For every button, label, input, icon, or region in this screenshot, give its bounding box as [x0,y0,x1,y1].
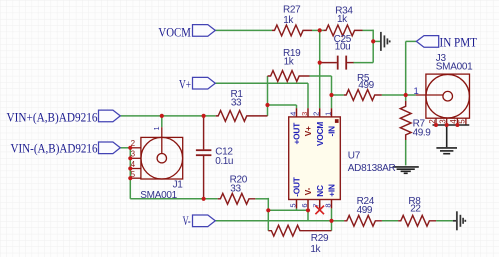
wire bottom rail to R20 [130,198,217,200]
wire V+ port to pin3 column [215,82,308,84]
svg-text:V-: V- [303,187,313,195]
svg-text:1k: 1k [337,14,348,25]
svg-text:-IN: -IN [327,126,337,137]
svg-text:0.1u: 0.1u [215,156,233,167]
resistor R27 1k [272,25,312,36]
svg-text:3: 3 [300,112,309,116]
J1 pin 1 [161,127,163,153]
wire -OUT node to pin 6 junction [268,209,308,211]
svg-text:1: 1 [323,112,332,116]
port VIN-(A,B)AD9216 [99,142,121,154]
svg-text:1k: 1k [310,244,321,255]
no-connect X on U7 pin 7 [315,206,324,215]
ground at R7 [393,167,419,173]
svg-text:33: 33 [230,183,241,194]
svg-text:22: 22 [410,204,421,215]
resistor R5 499 [344,90,382,101]
svg-text:5: 5 [131,170,136,179]
J1 pin 3 [130,157,141,159]
junction C12 top [202,114,206,118]
svg-text:4: 4 [131,160,136,169]
wire VOCM port to R27 [215,29,272,31]
port V- [193,215,216,227]
svg-text:VOCM: VOCM [315,122,325,146]
junction C12 bottom [202,197,206,201]
wire R29 right lead up to +IN junction [331,221,333,231]
port IN PMT [416,36,438,48]
wire C25 right lead corner [353,62,373,64]
port VOCM [193,25,216,37]
svg-text:1k: 1k [283,15,294,26]
wire VIN+ port to R1 [121,115,216,117]
U7 pin 6 stub [307,200,309,209]
svg-text:U7: U7 [348,150,361,161]
resistor R19 1k [268,71,310,82]
svg-text:2: 2 [428,119,437,124]
wire R1 corner up to R19 left [267,76,269,116]
junction J3 pin2 [434,123,438,127]
svg-text:VIN-(A,B)AD9216: VIN-(A,B)AD9216 [11,141,98,155]
wire corner down to R29 [267,198,269,231]
resistor R7 49.9 vertical [400,101,411,140]
resistor R34 1k [323,25,362,36]
op-amp U7 AD8138AR body [289,117,341,200]
junction pin6/V- [306,208,310,212]
svg-text:499: 499 [357,205,373,216]
junction VOCM/R34 [318,28,322,32]
resistor R1 33 [216,111,268,122]
svg-text:4: 4 [288,112,297,116]
junction R5/pin1 [329,93,333,97]
wire VOCM junction down to C25 junction [319,30,321,62]
svg-text:1k: 1k [284,57,295,68]
svg-text:+OUT: +OUT [292,123,302,145]
svg-text:2: 2 [131,139,136,148]
svg-text:2: 2 [312,112,321,116]
J3 pin 4 [456,118,458,125]
J1 pin 4 [130,168,141,170]
svg-text:+IN: +IN [327,184,337,197]
svg-text:5: 5 [288,203,297,207]
U7 pin 2 stub [319,108,321,117]
wire ground junction down to C25 right [372,41,374,62]
svg-text:1: 1 [414,86,419,97]
wire junction down to R7 [405,95,407,101]
U7 pin 5 stub [296,200,298,209]
svg-text:VIN+(A,B)AD9216: VIN+(A,B)AD9216 [7,110,98,124]
junction VIN-/J1 pin2 [128,146,132,150]
wire VIN- port to J1 pin 2 [121,147,131,149]
J3 pin 1 [416,94,443,96]
svg-text:10u: 10u [335,41,351,52]
junction R34/C25/gnd [371,39,375,43]
J1 pin 2 [130,147,141,149]
wire R8 to ground [436,220,453,222]
wire R27 to VOCM junction [312,29,323,31]
wire V- port rail [215,220,332,222]
port V+ [193,77,216,89]
junction J1 pin5 [128,176,132,180]
wire R34 right lead to corner [363,29,374,31]
svg-text:SMA001: SMA001 [140,190,177,201]
svg-text:49.9: 49.9 [413,127,432,138]
svg-text:NC: NC [315,185,325,197]
connector J1 SMA001 [130,127,182,179]
wire R19 right lead to pin1 column [310,75,332,77]
svg-text:499: 499 [358,80,374,91]
svg-text:V+: V+ [179,78,191,92]
svg-text:3: 3 [131,150,136,159]
wire V+ down to U7 pin 3 [307,83,309,108]
wire to IN PMT port [406,40,417,42]
svg-text:8: 8 [323,203,332,207]
J3 pin 5 [465,118,467,125]
U7 pin 4 stub [296,108,298,117]
resistor R29 1k [268,225,331,236]
U7 pin 7 stub [319,200,321,209]
junction VIN+/J1 pin1 [160,114,164,118]
junction J1 pin4 [128,166,132,170]
wire J1 pin 1 drop [161,116,163,127]
wire U7 pin 5 to -OUT rail [296,208,298,210]
junction J1 pin3 [128,156,132,160]
wire corner down to ground junction [372,30,374,42]
svg-text:R29: R29 [311,233,329,244]
U7 pin 3 stub [307,108,309,117]
svg-text:5: 5 [458,119,467,124]
U7 pin 1 stub [331,108,333,117]
U7 pin 8 stub [331,200,333,209]
svg-text:1: 1 [152,126,161,130]
svg-text:IN PMT: IN PMT [440,35,478,49]
wire ground junction to ground symbol [373,40,380,42]
ground at R8 [453,211,466,230]
capacitor C12 0.1u [196,116,212,199]
junction -OUT rail [266,208,270,212]
wire R5 right to J3 pin 1 [382,94,416,96]
svg-text:6: 6 [300,203,309,207]
junction +IN/R24/R29 [329,219,333,223]
wire down to U7 pin 4 [296,105,298,108]
port VIN+(A,B)AD9216 [99,110,121,122]
wire down to U7 pin 1 [331,76,333,108]
junction R1/R19/pin4 [265,103,269,107]
J3 pin 3 [446,118,448,125]
J3 pin 2 [435,118,437,125]
capacitor C25 10u [320,56,354,70]
junction J3 pin4 [455,123,459,127]
wire -IN node to R5 [332,94,344,96]
wire U7 pin 6 to junction [307,208,309,210]
wire +IN junction to R24 [332,220,345,222]
wire J1 left pin column [129,148,131,199]
U7 pin 1 marker square [335,119,339,123]
wire IN PMT junction up [405,41,407,95]
connector J3 SMA001 [416,74,470,125]
svg-text:AD8138AR: AD8138AR [348,163,396,174]
junction R5/R7/J3/INPMT [404,93,408,97]
resistor R8 22 [398,215,436,226]
svg-text:V-: V- [183,214,191,228]
ground at J3 shield [433,125,470,154]
J1 pin 5 [130,177,141,179]
wire pin 6 junction down to V- rail [307,210,309,221]
svg-text:3: 3 [439,119,448,124]
svg-text:VOCM: VOCM [158,26,191,40]
junction C25/pin2 [318,61,322,65]
svg-text:33: 33 [231,98,242,109]
svg-text:-OUT: -OUT [292,177,302,197]
wire R24 to R8 [382,220,398,222]
wire node to U7 pin 4 [268,104,297,106]
svg-text:V+: V+ [303,126,313,136]
svg-text:SMA001: SMA001 [436,62,473,73]
junction J3 pin3 [445,123,449,127]
svg-text:J1: J1 [173,179,184,190]
wire U7 pin 8 down to junction [331,208,333,220]
resistor R20 33 [218,193,256,204]
resistor R24 499 [344,215,382,226]
wire R7 bottom lead to ground [405,140,407,165]
ground near C25 [381,32,390,51]
wire R20 right to corner [255,198,268,200]
svg-text:7: 7 [312,203,321,207]
wire C25 junction down to U7 pin 2 [319,63,321,109]
